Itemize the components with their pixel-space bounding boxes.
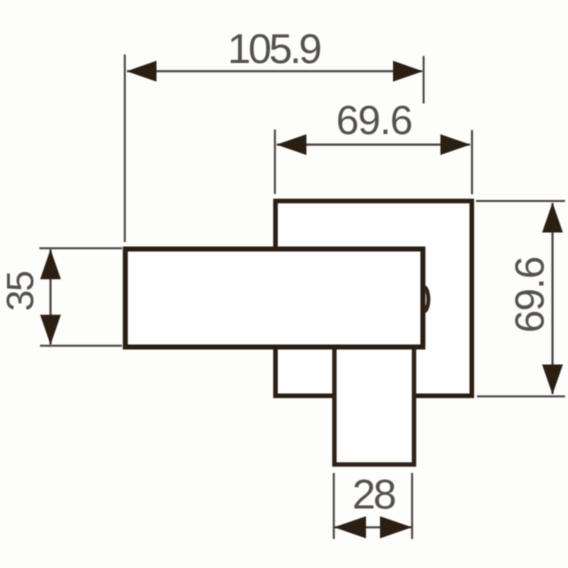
- extension line top of 35 dimension: [39, 247, 122, 249]
- arrow bottom of right 69.6: [542, 365, 563, 395]
- dimension line right 69.6: [551, 203, 553, 394]
- svg-text:105.9: 105.9: [227, 25, 320, 72]
- svg-text:35: 35: [0, 272, 42, 312]
- arrow right of 105.9: [393, 61, 423, 82]
- extension line left of upper 69.6 dimension: [274, 130, 276, 195]
- horizontal arm (35 tall): [125, 249, 423, 347]
- arc detail on arm right edge: [424, 287, 428, 311]
- dimension line upper 69.6: [277, 144, 470, 146]
- extension line left of top dimension: [124, 55, 126, 243]
- extension line right of 28 dimension: [411, 473, 413, 539]
- extension line right of upper 69.6 dimension: [471, 130, 473, 194]
- body square (69.6 x 69.6 wall plate): [276, 201, 472, 396]
- bottom tab (28 wide): [334, 340, 414, 465]
- svg-text:28: 28: [352, 471, 395, 518]
- svg-text:69.6: 69.6: [336, 97, 412, 143]
- arrow right of 28: [380, 516, 412, 538]
- extension line top of right 69.6 dimension: [476, 200, 565, 202]
- arrow top of 35: [40, 249, 61, 279]
- arrow top of right 69.6: [542, 203, 563, 233]
- dimension line 105.9: [127, 70, 422, 72]
- svg-text:69.6: 69.6: [507, 257, 553, 333]
- arrow right of upper 69.6: [440, 134, 470, 155]
- extension line left of 28 dimension: [333, 473, 335, 539]
- arrow left of 28: [334, 516, 366, 538]
- arrow left of 105.9: [127, 61, 157, 82]
- arrow bottom of 35: [40, 315, 61, 345]
- dimension line 35: [49, 250, 51, 345]
- arrow left of upper 69.6: [276, 134, 306, 155]
- dimension line 28: [335, 526, 412, 528]
- extension line bottom of right 69.6 dimension: [477, 395, 565, 397]
- extension line right of top dimension: [423, 56, 425, 104]
- extension line bottom of 35 dimension: [40, 345, 122, 347]
